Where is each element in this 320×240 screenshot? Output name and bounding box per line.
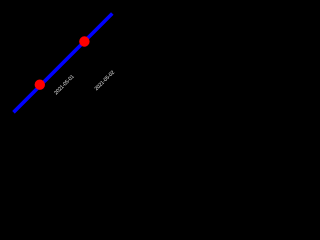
node B	[79, 36, 89, 46]
node A	[35, 80, 45, 90]
wire	[14, 14, 113, 113]
background	[0, 0, 126, 126]
